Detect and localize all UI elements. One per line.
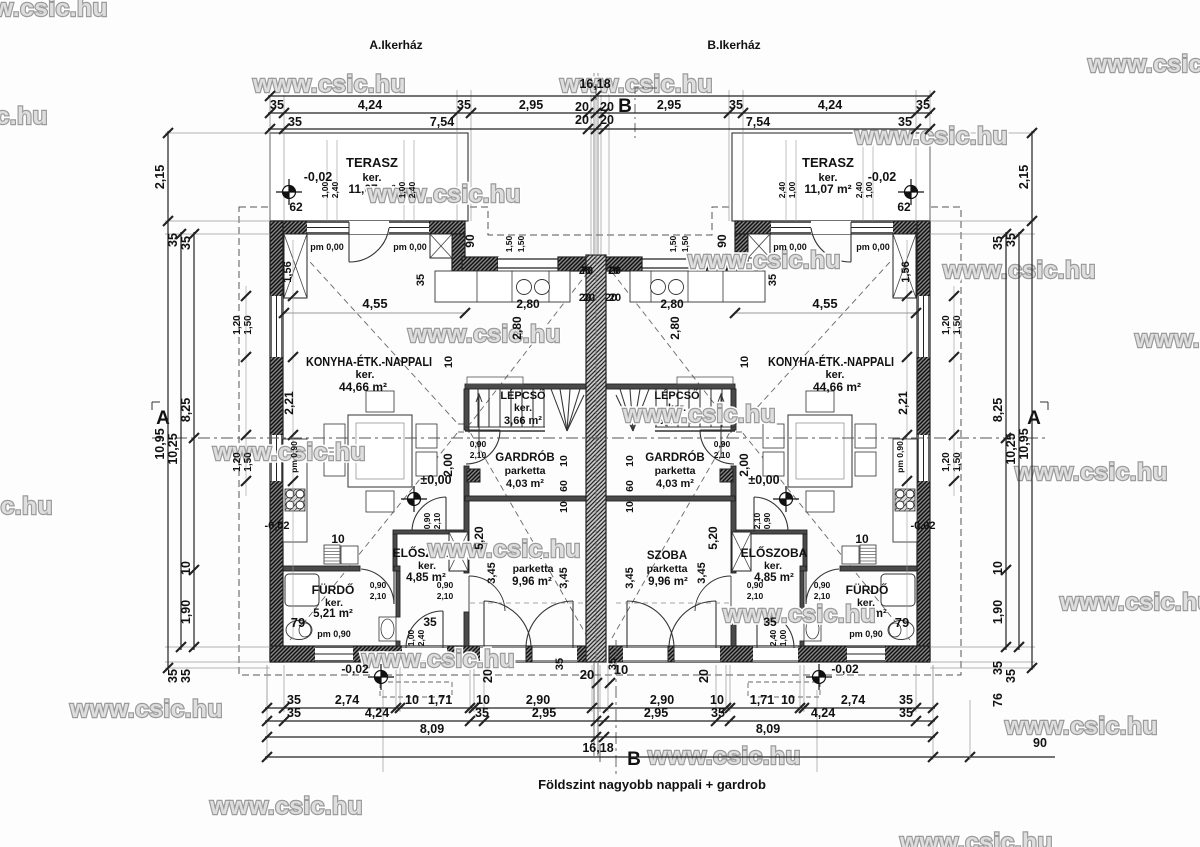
- svg-text:1,00: 1,00: [406, 629, 416, 646]
- svg-text:2,95: 2,95: [532, 706, 556, 720]
- svg-text:parketta: parketta: [655, 465, 696, 477]
- svg-text:35: 35: [457, 98, 471, 112]
- stair void outline house A: [467, 377, 523, 384]
- svg-text:1,90: 1,90: [179, 600, 193, 624]
- svg-text:8,09: 8,09: [420, 722, 444, 736]
- chairs house A: [366, 391, 394, 412]
- svg-text:4,24: 4,24: [358, 98, 382, 112]
- svg-text:2,74: 2,74: [335, 693, 359, 707]
- arc tip dashed house B: [616, 602, 730, 604]
- svg-text:20: 20: [481, 669, 495, 683]
- top witness lines: [270, 73, 930, 255]
- basin house B: [804, 617, 821, 641]
- room door house A: [469, 576, 505, 612]
- top dim row1: [268, 95, 932, 97]
- svg-text:10: 10: [331, 532, 345, 546]
- left witness lines: [165, 133, 270, 668]
- dining table house A: [348, 415, 412, 487]
- svg-text:79: 79: [291, 615, 305, 630]
- basin house A: [379, 617, 396, 641]
- svg-text:0,90: 0,90: [714, 439, 731, 449]
- svg-text:1,90: 1,90: [991, 600, 1005, 624]
- section line B-B top: [635, 88, 657, 140]
- svg-text:2,40: 2,40: [330, 181, 340, 198]
- mid front wall house B: [702, 257, 738, 271]
- svg-text:A: A: [1027, 408, 1041, 429]
- svg-text:4,24: 4,24: [811, 706, 835, 720]
- svg-text:35: 35: [1004, 669, 1018, 683]
- svg-text:parketta: parketta: [513, 563, 554, 575]
- svg-text:9,96 m²: 9,96 m²: [512, 576, 552, 588]
- svg-text:3,45: 3,45: [486, 562, 498, 583]
- svg-text:35: 35: [763, 615, 777, 629]
- right chain outer: [1031, 131, 1033, 670]
- svg-text:4,55: 4,55: [362, 296, 387, 311]
- svg-text:11,07 m²: 11,07 m²: [804, 182, 851, 196]
- svg-text:20: 20: [575, 100, 589, 114]
- hall top wall house A: [393, 530, 464, 534]
- svg-text:10: 10: [558, 455, 570, 467]
- svg-text:2,21: 2,21: [896, 391, 910, 415]
- svg-text:60: 60: [558, 480, 570, 492]
- svg-text:20: 20: [609, 292, 621, 304]
- svg-text:35: 35: [711, 706, 725, 720]
- right chain 3: [1005, 232, 1007, 650]
- svg-text:35: 35: [729, 98, 743, 112]
- svg-text:pm 0,90: pm 0,90: [895, 441, 905, 473]
- mid front wall window house B: [642, 257, 702, 271]
- terrace door arc house A: [349, 222, 389, 262]
- mid front wall 2 house A: [558, 257, 596, 271]
- svg-text:0,90: 0,90: [762, 512, 772, 529]
- roof hip dashed lines house B: [612, 240, 910, 640]
- svg-text:2,10: 2,10: [747, 591, 764, 601]
- washer house A: [341, 546, 358, 564]
- svg-text:2,80: 2,80: [516, 297, 540, 311]
- svg-text:10,25: 10,25: [166, 433, 180, 464]
- svg-text:10: 10: [710, 693, 724, 707]
- left chain 3: [193, 232, 195, 650]
- svg-text:www.csic.hu: www.csic.hu: [407, 321, 561, 348]
- svg-text:TERASZ: TERASZ: [346, 155, 398, 170]
- svg-text:-0,02: -0,02: [341, 662, 369, 676]
- svg-text:pm 0,00: pm 0,00: [310, 242, 344, 252]
- top dim row3: [268, 128, 932, 130]
- svg-text:ker.: ker.: [514, 402, 532, 414]
- svg-text:1,50: 1,50: [952, 452, 963, 472]
- bottom witness lines: [267, 665, 933, 772]
- gardrob pier house A: [467, 469, 480, 482]
- section line A-A: [152, 437, 1048, 439]
- svg-text:2,10: 2,10: [432, 512, 442, 529]
- svg-text:www.csic.hu: www.csic.hu: [0, 103, 48, 130]
- level mark terrace house B: [898, 179, 924, 205]
- svg-text:www.csic.hu: www.csic.hu: [0, 493, 53, 520]
- svg-text:35: 35: [423, 615, 437, 629]
- left chain 2: [180, 232, 182, 650]
- svg-text:9,96 m²: 9,96 m²: [648, 576, 688, 588]
- shaft house B: [732, 532, 751, 571]
- svg-text:KONYHA-ÉTK.-NAPPALI: KONYHA-ÉTK.-NAPPALI: [768, 354, 894, 369]
- toilet house A: [286, 621, 312, 640]
- svg-text:2,80: 2,80: [668, 316, 682, 340]
- svg-text:2,40: 2,40: [407, 181, 417, 198]
- svg-text:10,95: 10,95: [153, 428, 167, 459]
- svg-text:1,00: 1,00: [787, 181, 797, 198]
- svg-text:0,90: 0,90: [814, 580, 831, 590]
- bottom dim row1: [265, 707, 935, 709]
- right chain 2: [1018, 232, 1020, 650]
- svg-text:1,00: 1,00: [397, 181, 407, 198]
- bathtub house A: [285, 574, 319, 606]
- svg-text:35: 35: [475, 706, 489, 720]
- svg-text:www.csic.hu: www.csic.hu: [1004, 713, 1158, 740]
- side wall window low house A: [270, 435, 283, 481]
- front wall window 2 house A: [389, 221, 429, 234]
- svg-text:35: 35: [415, 274, 427, 286]
- svg-text:1,71: 1,71: [750, 693, 774, 707]
- svg-text:0,90: 0,90: [470, 439, 487, 449]
- svg-text:pm 0,90: pm 0,90: [289, 441, 299, 473]
- bath window bottom house B: [847, 646, 885, 662]
- svg-text:pm 0,90: pm 0,90: [849, 629, 883, 639]
- bottom dim row2: [265, 720, 935, 722]
- svg-text:4,03 m²: 4,03 m²: [656, 478, 694, 490]
- svg-text:90: 90: [715, 234, 729, 248]
- svg-text:35: 35: [607, 658, 619, 670]
- svg-text:parketta: parketta: [647, 563, 688, 575]
- gardrob bottom wall house A: [465, 496, 596, 501]
- svg-text:2,74: 2,74: [841, 693, 865, 707]
- svg-text:35: 35: [767, 274, 779, 286]
- chairs house B: [806, 391, 834, 412]
- svg-text:4,24: 4,24: [365, 706, 389, 720]
- svg-text:GARDRÓB: GARDRÓB: [495, 451, 554, 464]
- entry step dashed house A: [380, 682, 452, 697]
- svg-text:16,18: 16,18: [579, 77, 610, 91]
- svg-text:2,00: 2,00: [737, 453, 751, 477]
- level mark bottom house A: [368, 664, 394, 690]
- svg-text:B: B: [627, 749, 641, 770]
- svg-text:-0,02: -0,02: [264, 520, 289, 532]
- bath hall divider house A: [396, 571, 400, 617]
- svg-text:35: 35: [916, 98, 930, 112]
- svg-text:10: 10: [405, 693, 419, 707]
- svg-text:www.csic.hu: www.csic.hu: [69, 696, 223, 723]
- terrace B outline: [732, 133, 930, 221]
- svg-text:2,15: 2,15: [153, 165, 167, 189]
- svg-text:1,00: 1,00: [320, 181, 330, 198]
- svg-text:2,10: 2,10: [370, 591, 387, 601]
- svg-text:2,95: 2,95: [644, 706, 668, 720]
- gardrob bottom wall house B: [604, 496, 735, 501]
- svg-text:2,10: 2,10: [437, 591, 454, 601]
- inner dim 455 line house A: [284, 312, 465, 314]
- side wall window low house B: [917, 435, 930, 481]
- svg-text:35: 35: [991, 236, 1005, 250]
- svg-text:20: 20: [575, 113, 589, 127]
- svg-text:1,56: 1,56: [900, 261, 912, 282]
- svg-text:www.csic.hu: www.csic.hu: [252, 71, 406, 98]
- side exterior wall house A: [270, 221, 283, 662]
- svg-text:FÜRDŐ: FÜRDŐ: [846, 582, 889, 597]
- svg-text:0,90: 0,90: [370, 580, 387, 590]
- svg-text:www.csic.hu: www.csic.hu: [722, 601, 876, 628]
- inner left chain line house B: [906, 240, 908, 640]
- svg-text:2,21: 2,21: [282, 391, 296, 415]
- side wall window up house B: [917, 296, 930, 357]
- svg-text:-0,02: -0,02: [910, 520, 935, 532]
- corner pier left house A: [284, 234, 307, 298]
- svg-text:www.csic.hu: www.csic.hu: [1087, 51, 1200, 78]
- level mark bottom house B: [806, 664, 832, 690]
- stair void outline house B: [677, 377, 733, 384]
- corner pier right house B: [748, 234, 770, 258]
- svg-text:8,25: 8,25: [179, 398, 193, 422]
- svg-text:B.Ikerház: B.Ikerház: [707, 38, 760, 52]
- stair arrow house A: [476, 394, 482, 458]
- svg-text:44,66 m²: 44,66 m²: [813, 380, 861, 394]
- svg-text:www.csic.hu: www.csic.hu: [899, 829, 1053, 847]
- svg-text:10: 10: [179, 561, 193, 575]
- svg-text:1,50: 1,50: [680, 235, 690, 252]
- svg-text:2,40: 2,40: [416, 629, 426, 646]
- front wall house A: [270, 221, 465, 234]
- svg-text:35: 35: [899, 706, 913, 720]
- corner wall house A: [452, 234, 465, 271]
- svg-text:0,90: 0,90: [422, 512, 432, 529]
- svg-text:10: 10: [855, 532, 869, 546]
- svg-text:5,21 m²: 5,21 m²: [313, 608, 353, 620]
- bottom dim row4: [265, 756, 1055, 758]
- svg-text:1,50: 1,50: [516, 235, 526, 252]
- stairs house B: [616, 389, 735, 431]
- svg-text:4,24: 4,24: [818, 98, 842, 112]
- svg-text:4,03 m²: 4,03 m²: [506, 478, 544, 490]
- svg-text:B: B: [618, 96, 632, 117]
- svg-text:5,20: 5,20: [706, 526, 720, 550]
- svg-text:20: 20: [600, 113, 614, 127]
- dining table house B: [788, 415, 852, 487]
- svg-text:www.csic.hu: www.csic.hu: [361, 646, 515, 673]
- right witness lines: [930, 133, 1035, 668]
- french door opening house B: [623, 646, 720, 662]
- stair top wall house A: [465, 384, 596, 389]
- svg-text:35: 35: [287, 706, 301, 720]
- svg-text:SZOBA: SZOBA: [647, 550, 687, 562]
- svg-text:10: 10: [558, 501, 570, 513]
- svg-text:5,20: 5,20: [472, 526, 486, 550]
- svg-text:2,95: 2,95: [657, 98, 681, 112]
- kitchen counter front house B: [630, 271, 765, 302]
- svg-text:Földszint nagyobb nappali + ga: Földszint nagyobb nappali + gardrob: [538, 777, 766, 792]
- svg-text:62: 62: [897, 200, 911, 214]
- gardrob pier house B: [720, 469, 733, 482]
- svg-text:70: 70: [581, 265, 593, 277]
- stove house A: [285, 489, 305, 511]
- bottom wall house B: [609, 646, 930, 662]
- terrace door opening house A: [349, 221, 389, 234]
- svg-text:2,80: 2,80: [660, 297, 684, 311]
- svg-text:60: 60: [624, 480, 636, 492]
- entrance door arc house A: [406, 611, 443, 648]
- svg-text:35: 35: [179, 236, 193, 250]
- roof overhang dashed outline: [239, 207, 961, 675]
- svg-text:35: 35: [899, 693, 913, 707]
- svg-text:www.csic.hu: www.csic.hu: [427, 536, 581, 563]
- svg-text:1,00: 1,00: [778, 629, 788, 646]
- svg-text:1,20: 1,20: [941, 452, 952, 472]
- terrace door opening house B: [811, 221, 851, 234]
- svg-text:1,20: 1,20: [941, 315, 952, 335]
- roof hip dashed lines house A: [290, 240, 588, 640]
- svg-text:2,95: 2,95: [519, 98, 543, 112]
- bath top wall house B: [840, 566, 917, 571]
- corner pier left house B: [893, 234, 916, 298]
- svg-text:76: 76: [991, 693, 1005, 707]
- svg-text:pm 0,90: pm 0,90: [317, 629, 351, 639]
- left chain outer: [167, 131, 169, 670]
- svg-text:www.csic.hu: www.csic.hu: [1059, 589, 1200, 616]
- entrance door arc house B: [757, 611, 794, 648]
- radiator house A: [324, 545, 340, 564]
- bath hall divider house B: [800, 571, 804, 617]
- svg-text:www.csic.hu: www.csic.hu: [622, 401, 776, 428]
- bath door house B: [806, 568, 839, 604]
- svg-text:8,25: 8,25: [991, 398, 1005, 422]
- svg-text:79: 79: [895, 615, 909, 630]
- svg-text:8,09: 8,09: [756, 722, 780, 736]
- svg-text:3,45: 3,45: [624, 567, 636, 588]
- entrance door opening house B: [753, 646, 798, 662]
- mid front wall 2 house B: [604, 257, 642, 271]
- washer house B: [842, 546, 859, 564]
- toilet house B: [888, 621, 914, 640]
- svg-text:TERASZ: TERASZ: [802, 155, 854, 170]
- corner wall house B: [735, 234, 748, 271]
- party wall: [586, 255, 606, 662]
- entrance door opening house A: [402, 646, 447, 662]
- svg-text:pm 0,00: pm 0,00: [393, 242, 427, 252]
- svg-text:10: 10: [624, 501, 636, 513]
- level mark main house A: [401, 486, 427, 512]
- french door arcs house A: [484, 601, 531, 648]
- svg-text:2,10: 2,10: [814, 591, 831, 601]
- french door arcs house B: [669, 601, 716, 648]
- svg-text:10: 10: [781, 693, 795, 707]
- french door opening house A: [480, 646, 577, 662]
- svg-text:7,54: 7,54: [430, 115, 454, 129]
- bottom wall house A: [270, 646, 591, 662]
- svg-text:7,54: 7,54: [746, 115, 770, 129]
- svg-text:pm 0,00: pm 0,00: [856, 242, 890, 252]
- svg-text:35: 35: [288, 115, 302, 129]
- svg-text:2,40: 2,40: [854, 181, 864, 198]
- svg-text:90: 90: [1033, 736, 1047, 750]
- bath door house A: [361, 568, 394, 604]
- svg-text:2,10: 2,10: [470, 450, 487, 460]
- svg-text:3,66 m²: 3,66 m²: [504, 415, 542, 427]
- svg-text:35: 35: [991, 661, 1005, 675]
- arc tip dashed house A: [470, 602, 584, 604]
- svg-text:20: 20: [697, 669, 711, 683]
- svg-text:-0,02: -0,02: [831, 662, 859, 676]
- svg-text:4,55: 4,55: [812, 296, 837, 311]
- svg-text:20: 20: [580, 667, 594, 682]
- svg-text:2,80: 2,80: [510, 316, 524, 340]
- svg-text:www.csic.hu: www.csic.hu: [367, 181, 521, 208]
- inner dim 455 line house B: [735, 312, 916, 314]
- svg-text:±0,00: ±0,00: [748, 473, 779, 487]
- section line B-B bottom: [615, 640, 617, 775]
- svg-text:35: 35: [898, 115, 912, 129]
- svg-text:90: 90: [463, 234, 477, 248]
- interior vertical wall house B: [731, 389, 736, 430]
- svg-text:2,90: 2,90: [526, 693, 550, 707]
- stair top wall house B: [604, 384, 735, 389]
- shaft house A: [449, 532, 468, 571]
- svg-text:10: 10: [624, 455, 636, 467]
- svg-text:20: 20: [609, 265, 621, 277]
- terrace A outline: [270, 133, 468, 221]
- svg-text:2,10: 2,10: [752, 512, 762, 529]
- svg-text:ELŐSZOBA: ELŐSZOBA: [741, 545, 808, 560]
- svg-text:35: 35: [554, 658, 566, 670]
- svg-text:1,50: 1,50: [243, 452, 254, 472]
- svg-text:2,15: 2,15: [1017, 165, 1031, 189]
- svg-text:1,71: 1,71: [428, 693, 452, 707]
- svg-text:10: 10: [476, 693, 490, 707]
- svg-text:1,50: 1,50: [952, 315, 963, 335]
- kitchen counter side house A: [283, 439, 307, 542]
- mid front wall house A: [462, 257, 498, 271]
- bath top wall house A: [283, 566, 360, 571]
- svg-text:35: 35: [166, 669, 180, 683]
- stairs house A: [465, 389, 584, 431]
- stair arrow house B: [718, 394, 724, 458]
- svg-text:1,50: 1,50: [243, 315, 254, 335]
- kitchen counter side house B: [893, 439, 917, 542]
- svg-text:www.csic.hu: www.csic.hu: [209, 793, 363, 820]
- svg-text:A.Ikerház: A.Ikerház: [369, 38, 422, 52]
- side exterior wall house B: [917, 221, 930, 662]
- svg-text:0,90: 0,90: [437, 580, 454, 590]
- svg-text:1,20: 1,20: [232, 315, 243, 335]
- radiator house B: [860, 545, 876, 564]
- svg-text:10: 10: [991, 561, 1005, 575]
- svg-text:35: 35: [166, 233, 180, 247]
- svg-text:62: 62: [289, 200, 303, 214]
- svg-text:2,90: 2,90: [650, 693, 674, 707]
- hall top wall house B: [736, 530, 807, 534]
- terrace door arc house B: [811, 222, 851, 262]
- svg-text:1,50: 1,50: [668, 235, 678, 252]
- front wall window 2 house B: [771, 221, 811, 234]
- mid front wall window house A: [498, 257, 558, 271]
- terrace door witness house A: [327, 140, 414, 221]
- svg-text:35: 35: [179, 669, 193, 683]
- svg-text:KONYHA-ÉTK.-NAPPALI: KONYHA-ÉTK.-NAPPALI: [306, 354, 432, 369]
- svg-text:www.csic.hu: www.csic.hu: [1134, 326, 1200, 353]
- hall-kitchen door house B: [754, 497, 788, 532]
- svg-text:2,40: 2,40: [777, 181, 787, 198]
- svg-text:35: 35: [270, 98, 284, 112]
- svg-text:LÉPCSŐ: LÉPCSŐ: [500, 389, 546, 402]
- front wall window 1 house A: [307, 221, 349, 234]
- side wall window up house A: [270, 296, 283, 357]
- level mark main house B: [773, 486, 799, 512]
- svg-text:1,50: 1,50: [504, 235, 514, 252]
